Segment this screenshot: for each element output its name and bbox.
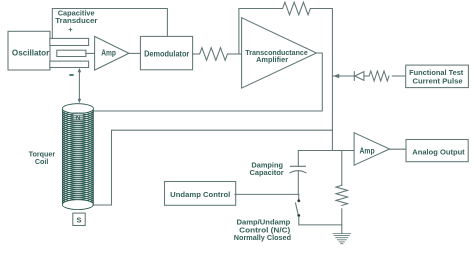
- analog output box: [406, 140, 468, 162]
- damping capacitor C1: [290, 151, 306, 195]
- capacitive transducer plate P2 (middle): [57, 50, 86, 56]
- switch SW1 (N/C): [296, 194, 342, 225]
- wire resistor R3 to functional test box: [392, 75, 405, 77]
- resistor R2: [283, 2, 311, 15]
- svg-text:+: +: [68, 25, 73, 34]
- wire node to amp2 input: [298, 150, 354, 152]
- feedback wire with resistor R2: [239, 9, 283, 55]
- svg-text:Analog Output: Analog Output: [412, 147, 465, 156]
- torquer coil L1: [62, 104, 93, 210]
- minus polarity label: [69, 74, 73, 76]
- capacitive transducer plate P3 (bottom): [50, 61, 89, 67]
- svg-text:Coil: Coil: [35, 157, 48, 166]
- transconductance amplifier label: [245, 48, 307, 64]
- capacitive transducer label: [55, 9, 97, 25]
- torquer coil label: [29, 149, 56, 166]
- capacitive transducer plate P1 (top): [50, 38, 89, 45]
- wire resistor R1 to transconductance amplifier: [228, 53, 242, 55]
- wire amp to demodulator: [129, 52, 141, 54]
- demodulator box: [140, 36, 192, 69]
- wire middle plate to amp: [86, 52, 95, 54]
- oscillator box: [8, 31, 50, 70]
- svg-text:Demodulator: Demodulator: [144, 49, 189, 58]
- wire demodulator to resistor R1: [193, 53, 200, 55]
- output wire of transconductance amplifier down to coil top: [93, 53, 323, 111]
- svg-text:Amplifier: Amplifier: [256, 55, 288, 64]
- functional test injection wire with arrow: [332, 74, 354, 79]
- svg-text:Oscillator: Oscillator: [12, 48, 49, 57]
- svg-text:Amp: Amp: [360, 147, 375, 156]
- damping capacitor label: [250, 161, 284, 178]
- wire resistor R2 to node line: [310, 9, 332, 151]
- svg-text:N: N: [76, 115, 81, 122]
- resistor R3: [369, 71, 389, 81]
- undamp control box: [165, 182, 236, 206]
- svg-text:Undamp Control: Undamp Control: [170, 190, 230, 199]
- functional test label: [409, 68, 464, 85]
- wire coil bottom to node line: [93, 130, 333, 205]
- svg-text:S: S: [77, 216, 82, 225]
- svg-text:Capacitor: Capacitor: [250, 168, 284, 177]
- wire top plate to demodulator top: [52, 9, 167, 39]
- transconductance amplifier U1: [242, 18, 317, 88]
- node S box: [73, 213, 85, 225]
- ground: [333, 234, 351, 244]
- resistor R4 vertical: [336, 151, 348, 234]
- damp/undamp control label: [234, 217, 291, 242]
- functional test current pulse box: [406, 65, 469, 88]
- node N box: [73, 113, 83, 121]
- wire diode to resistor R3: [364, 75, 369, 77]
- op-amp Amp1: [95, 36, 129, 70]
- wire amp2 to analog output: [390, 148, 406, 150]
- svg-text:Amp: Amp: [101, 49, 116, 58]
- resistor R1: [200, 48, 228, 61]
- wire undamp control to switch node: [235, 193, 299, 195]
- op-amp Amp2: [354, 133, 389, 166]
- svg-text:Normally Closed: Normally Closed: [234, 233, 291, 242]
- diode D1: [354, 72, 364, 81]
- svg-text:Transducer: Transducer: [55, 16, 97, 25]
- svg-text:Current Pulse: Current Pulse: [413, 76, 463, 85]
- mechanical coupling arrow plates-coil: [78, 68, 82, 103]
